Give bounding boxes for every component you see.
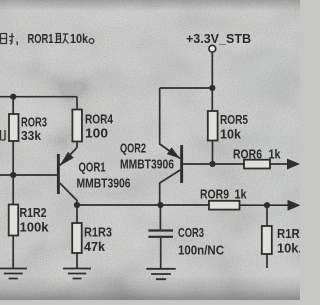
node R1R6 junction [264,202,270,208]
transistor Q1 QOR1 MMBT3906 [57,148,77,206]
label ROR3 value 33k [21,115,47,144]
svg-text:MMBT3906: MMBT3906 [77,176,131,191]
svg-text:100n/NC: 100n/NC [178,243,225,258]
resistor ROR3 [9,114,19,141]
hanzi 取 [55,34,69,44]
label COR3 value 100n/NC [178,225,225,258]
node QOR1 collector junction [74,202,80,208]
label ROR6 value 1k [233,147,281,162]
node ROR6 junction [209,161,215,167]
svg-text:ROR5: ROR5 [220,112,248,127]
capacitor COR3 [148,205,173,268]
note text (Chinese): 时，ROR1取10k。 [1,33,18,45]
svg-text:10k: 10k [220,127,242,142]
wire R1R3 to ground [76,253,78,268]
svg-text:ROR6: ROR6 [233,147,262,162]
resistor R1R2 [9,205,19,236]
note text 10k [70,31,89,46]
wire ROR9 to arrow [240,204,289,206]
resistor R1R6 [262,226,272,254]
wire bottom net [77,204,209,206]
label ROR5 value 10k [220,112,248,142]
label R1R3 value 47k [84,225,112,255]
ground under COR3 [146,269,175,279]
resistor R1R3 [72,223,82,253]
wire R1R6 drop [266,205,268,226]
svg-text:QOR2: QOR2 [120,141,146,156]
fullwidth comma [16,42,19,46]
label ROR9 value 1k [200,187,247,202]
stray cut glyph at left edge [1,130,6,140]
svg-text:10k: 10k [70,31,89,46]
svg-text:QOR1: QOR1 [79,160,106,175]
wire below R1R6 [266,254,268,268]
node junction at power rail [209,85,215,91]
ground under R1R3 [63,269,91,279]
svg-text:1k: 1k [235,187,248,202]
fullwidth period [89,39,94,44]
node COR3 junction [157,202,163,208]
svg-text:33k: 33k [21,128,42,143]
resistor ROR4 [72,110,82,142]
svg-text:R1R2: R1R2 [20,205,47,220]
resistor ROR5 [208,88,218,164]
hanzi 时 (partial at left edge) [1,33,15,44]
svg-text:R1R6: R1R6 [277,226,300,241]
wire power circle to junction [211,52,213,88]
power terminal circle [209,45,216,52]
arrow ROR9 output [288,201,299,210]
svg-text:100: 100 [85,126,108,141]
wire ROR6 to output arrow [270,163,288,165]
svg-text:ROR1: ROR1 [28,31,54,46]
wire top rail corner to ROR4 [76,97,78,110]
svg-text:100k: 100k [20,220,50,235]
wire junction down to ROR3 [12,97,14,114]
wire ROR4 to QOR1 emitter [76,142,78,148]
svg-text:+3.3V_STB: +3.3V_STB [186,31,251,46]
node junction top-left [10,94,16,100]
label ROR4 value 100 [85,112,114,141]
resistor ROR6 [244,160,270,169]
wire rail to QOR2 emitter branch [160,87,213,89]
svg-text:10k.: 10k. [277,241,300,256]
wire top-left rail [0,96,77,98]
svg-text:COR3: COR3 [178,225,204,240]
transistor Q2 QOR2 MMBT3906 [160,88,183,205]
label QOR1 MMBT3906 [77,160,131,191]
wire R1R3 drop [76,205,78,223]
svg-text:1k: 1k [269,147,282,162]
node base junction [10,172,16,178]
svg-text:R1R3: R1R3 [84,225,112,240]
wire to ROR6 [213,163,245,165]
arrow ROR6 output [288,159,299,168]
svg-text:MMBT3906: MMBT3906 [120,157,174,172]
label R1R2 value 100k [20,205,50,235]
wire QOR2 base to ROR5/ROR6 node [183,163,212,165]
ground under R1R2 [0,269,27,279]
svg-text:47k: 47k [84,239,106,254]
svg-text:ROR9: ROR9 [200,187,229,202]
label QOR2 MMBT3906 [120,141,174,172]
wire QOR1 base [0,174,57,176]
label R1R6 value 10k (cut at edge) [277,226,306,256]
wire ROR3 to base junction [12,141,14,205]
wire R1R2 to ground [12,236,14,269]
resistor ROR9 [209,201,240,210]
power net +3.3V_STB label [186,31,251,46]
svg-text:ROR4: ROR4 [85,112,114,127]
note text ROR1 [28,31,54,46]
